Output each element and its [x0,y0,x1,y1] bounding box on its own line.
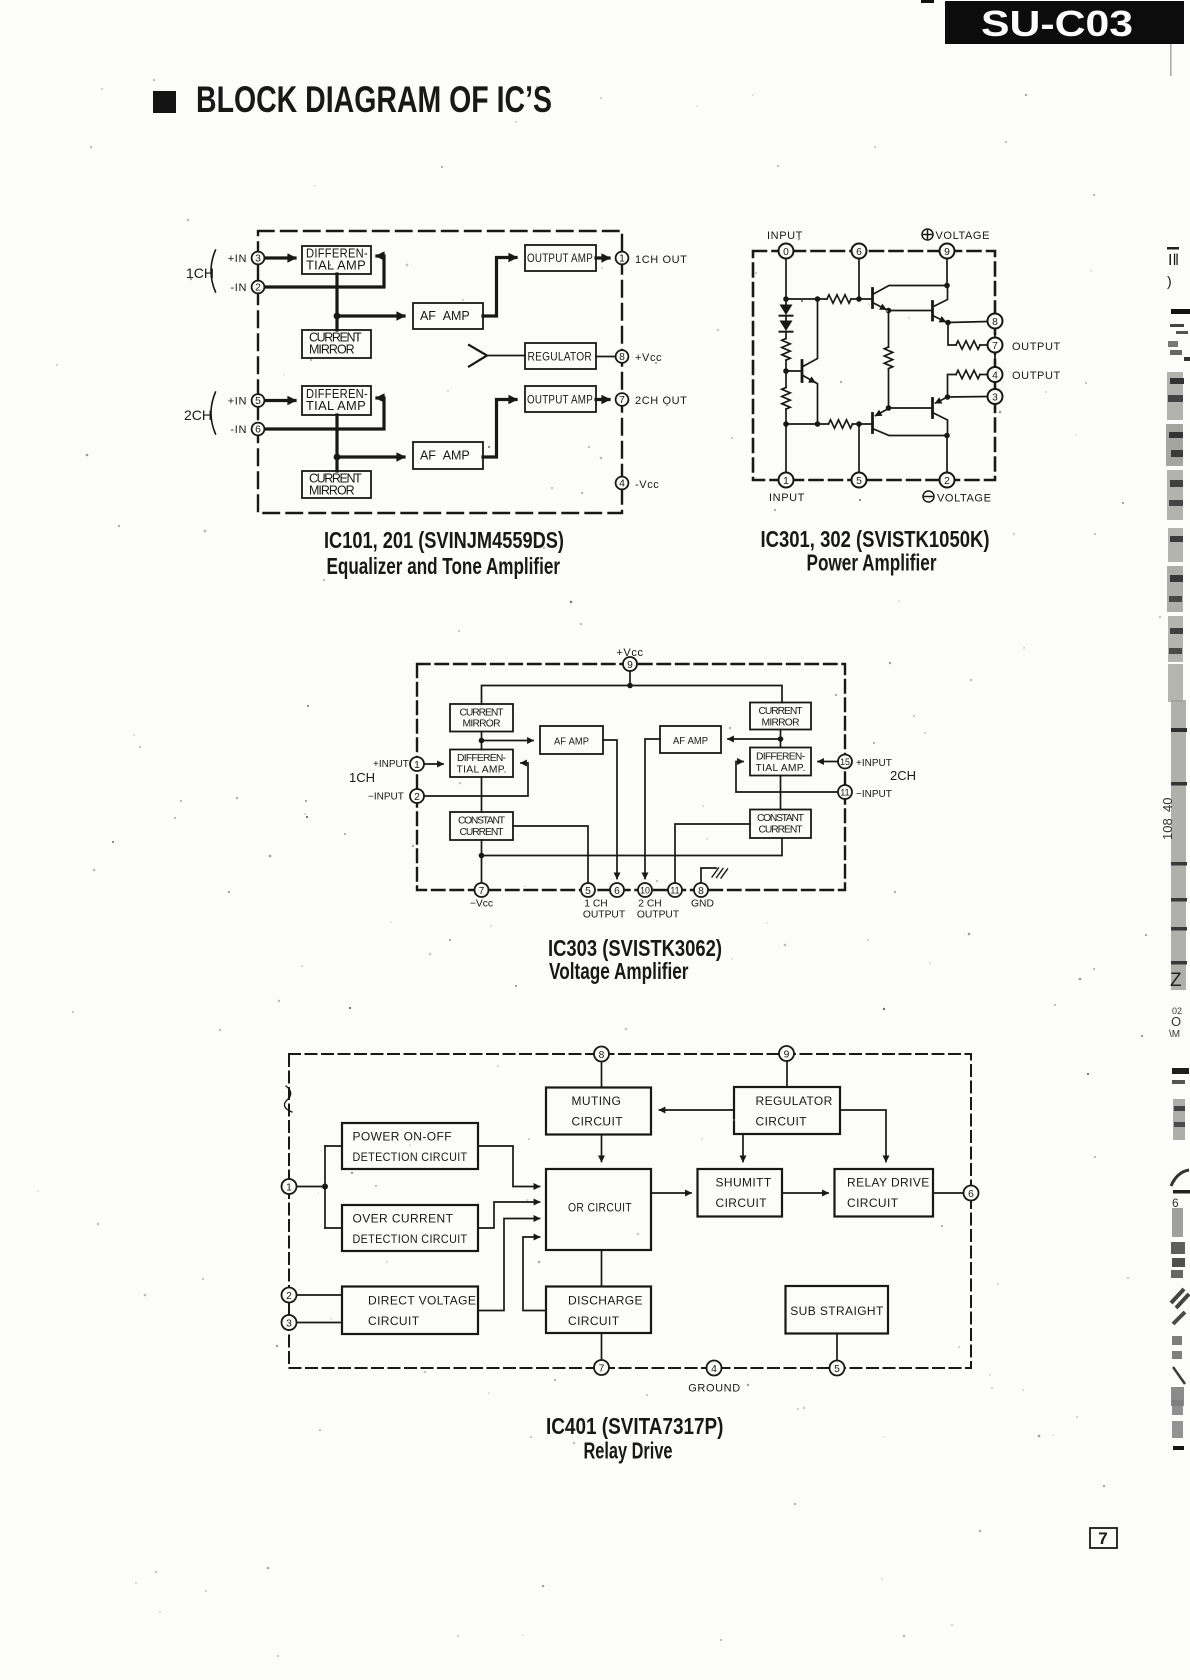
svg-text:40: 40 [1160,798,1175,812]
middle column lower wire [888,369,890,408]
wire regulator to pin 8 [596,356,616,358]
svg-text:2: 2 [944,476,950,487]
brace 2CH [211,392,216,434]
svg-text:1: 1 [414,760,420,771]
svg-text:REGULATOR: REGULATOR [756,1094,833,1108]
Q2 collector [933,286,948,308]
pin 8 [694,883,708,897]
pin1 node dot [322,1184,328,1190]
current mirror 2 box [302,471,371,498]
diode D2 [780,316,793,332]
svg-text:CIRCUIT: CIRCUIT [568,1314,620,1328]
pin 7 [594,1360,609,1375]
wire CM-L to DIFF-L [481,732,483,750]
pin 5 [830,1361,845,1376]
Q1 collector [873,286,948,295]
wire AF amp 1 to output amp 1 [483,258,516,317]
differential amp R box [750,748,811,776]
brace 1CH [211,250,216,292]
resistor R-mid (vertical) [884,347,892,369]
pin 2 [282,1288,297,1303]
current mirror 1 box [302,330,371,358]
power on-off detection box [342,1123,478,1169]
svg-text:OUTPUT: OUTPUT [583,910,626,921]
pin 5 [252,394,265,407]
svg-text:2: 2 [414,792,420,803]
resistor R2 (vertical) [782,388,790,410]
svg-text:7: 7 [599,1364,605,1375]
label 1 CH OUTPUT [583,899,626,921]
wire node to pin 3 [948,396,989,399]
middle column upper wire [888,311,890,348]
relay drive circuit box [835,1169,934,1217]
differential amp 2 box [302,386,371,415]
pin 9 [940,244,955,259]
svg-text:2CH: 2CH [890,768,916,783]
node dot [815,421,821,427]
Q2 emitter (arrow) [933,316,946,322]
Q3 collector [873,429,948,436]
wire pin5 stem [858,424,860,473]
svg-text:8: 8 [698,886,704,897]
svg-text:+Vcc: +Vcc [616,647,643,659]
resistor R1 (vertical) [782,339,790,361]
direct voltage circuit box [342,1287,478,1335]
transistor Q5 base bar [801,361,804,382]
wire direct voltage to OR [478,1219,540,1311]
node B dot [783,368,789,374]
wire AF-L to pin6 (arrow) [603,740,617,879]
svg-text:−INPUT: −INPUT [368,792,404,803]
wire Q1 emitter to Q2 base [889,310,932,312]
svg-text:5: 5 [255,396,261,407]
right border solid segment 8-7 [994,329,996,337]
node dot [783,296,789,302]
wire node2 to AF amp 2 [337,455,404,458]
wire to Q4 base [889,407,932,409]
arrow muting to OR [601,1135,603,1162]
page number box [1090,1528,1117,1548]
border squiggle artifact [284,1086,292,1112]
svg-text:CURRENT: CURRENT [759,825,804,836]
shumitt circuit box [698,1169,783,1217]
wire pin2 [297,1294,343,1296]
arrow shumitt to relay [782,1192,828,1194]
pin 5 [581,883,595,897]
node dot [856,421,862,427]
wire pin9 stem [786,1061,788,1087]
svg-text:6: 6 [856,247,862,258]
svg-text:O: O [1171,1014,1181,1029]
pin 6 [252,423,265,436]
branch to power box [325,1145,342,1147]
svg-text:VOLTAGE: VOLTAGE [937,493,992,505]
model number plate [945,1,1184,44]
svg-text:6: 6 [614,886,620,897]
svg-text:4: 4 [992,371,998,382]
AF amp 2 box [413,442,483,469]
svg-text:VOLTAGE: VOLTAGE [936,230,991,242]
wire R1 to node B [785,360,787,371]
svg-text:TIAL AMP: TIAL AMP [306,399,366,413]
svg-text:Power Amplifier: Power Amplifier [807,550,937,576]
pin 4 [988,367,1003,382]
svg-text:108: 108 [1160,818,1175,840]
svg-text:CIRCUIT: CIRCUIT [368,1314,420,1328]
wire down to pin7 resistor [948,323,956,346]
svg-text:CONSTANT: CONSTANT [757,813,805,824]
wire pin9 stem [946,259,948,286]
svg-text:MIRROR: MIRROR [309,343,355,357]
AF amp R box [660,726,721,753]
svg-text:0: 0 [783,247,789,258]
wire discharge hook to OR [523,1237,546,1311]
wire to regulator [487,355,525,357]
top rail right [851,298,873,300]
svg-text:RELAY DRIVE: RELAY DRIVE [847,1176,930,1190]
branch to over current box [325,1227,342,1229]
svg-text:\M: \M [1169,1029,1180,1040]
svg-text:CIRCUIT: CIRCUIT [716,1196,768,1210]
svg-text:CIRCUIT: CIRCUIT [572,1115,624,1129]
pin8 ground wire [701,868,716,884]
svg-text:GND: GND [691,899,714,910]
svg-text:9: 9 [627,660,633,671]
svg-text:1 CH: 1 CH [584,899,607,910]
svg-text:11: 11 [840,787,849,797]
svg-text:4: 4 [619,479,625,490]
transistor Q3 base bar [871,414,874,433]
svg-text:SUB STRAIGHT: SUB STRAIGHT [790,1304,884,1318]
svg-text:2CH OUT: 2CH OUT [635,395,687,407]
svg-text:DIRECT VOLTAGE: DIRECT VOLTAGE [368,1294,476,1308]
output amp 1 box [525,245,596,271]
over current detection box [342,1205,478,1251]
wire pin2 stem [946,436,948,473]
arrow CM-R node to AF-R [728,738,781,740]
svg-text:SHUMITT: SHUMITT [716,1176,772,1190]
svg-text:-IN: -IN [231,424,247,436]
svg-text:8: 8 [992,317,998,328]
svg-text:DISCHARGE: DISCHARGE [568,1294,643,1308]
wire sub straight to pin5 [836,1334,838,1361]
pin 4 [707,1361,722,1376]
wire CC-R to pin11 bottom [675,824,750,884]
pin 1 [282,1179,297,1194]
Q4 collector [933,413,948,436]
pin1 branch vertical [324,1146,326,1228]
svg-text:AF AMP: AF AMP [420,309,470,323]
bottom long rail [482,838,783,856]
node dot pin3 [945,394,951,400]
node junction 1 [334,313,341,320]
svg-text:POWER ON-OFF: POWER ON-OFF [353,1130,452,1144]
wire power to OR [478,1146,540,1187]
svg-text:1: 1 [619,254,625,265]
pin 10 [638,883,652,897]
arrow CM-L node to AF-L [482,740,534,742]
pin 11 right [838,785,852,799]
wire pin3 [297,1322,343,1324]
node dot [783,421,789,427]
svg-text:-IN: -IN [231,282,247,294]
wire node2 to current mirror 2 [335,457,338,471]
svg-text:CIRCUIT: CIRCUIT [756,1115,808,1129]
pin 5 [852,473,867,488]
current mirror L box [450,704,513,732]
pin15 arrow to DIFF-R [818,761,839,763]
regulator circuit box [734,1087,840,1134]
label 2 CH OUTPUT [637,899,680,921]
SECTION:IC101 [184,231,687,579]
wire AF amp 2 to output amp 2 [483,400,516,458]
svg-text:1CH OUT: 1CH OUT [635,254,687,266]
sub straight box [786,1286,889,1334]
svg-text:2CH: 2CH [184,407,212,423]
SECTION:IC303 [349,647,916,984]
label -VOLTAGE [923,491,992,505]
svg-text:Z: Z [1170,970,1182,991]
wire OR to discharge [601,1250,603,1287]
IC303 package outline (dashed) [417,664,845,890]
svg-text:4: 4 [711,1364,717,1375]
svg-text:IC101, 201 (SVINJM4559DS): IC101, 201 (SVINJM4559DS) [324,527,564,553]
svg-text:6: 6 [968,1189,974,1200]
svg-text:CURRENT: CURRENT [460,708,505,719]
title bullet square [153,91,176,113]
wire diff1 to node [335,274,338,316]
wire pin8 stem [601,1062,603,1088]
resistor R-top [827,295,851,303]
svg-text:7: 7 [479,886,485,897]
svg-text:INPUT: INPUT [767,230,803,242]
svg-text:IC301, 302 (SVISTK1050K): IC301, 302 (SVISTK1050K) [761,526,990,552]
wire pin6 stem [858,259,860,300]
wire resistor to pin 7 [980,344,988,346]
label +VOLTAGE [922,229,990,242]
svg-text:5: 5 [856,476,862,487]
constant current L box [450,812,513,840]
svg-text:7: 7 [992,341,998,352]
regulator box [525,343,596,369]
arrow regulator to muting [660,1109,735,1111]
SECTION:IC301 [753,229,1061,576]
wire diff2 to node 2 [335,415,338,457]
svg-text:IC401 (SVITA7317P): IC401 (SVITA7317P) [546,1413,724,1439]
wire node B to R2 [785,371,787,388]
svg-text:AF AMP: AF AMP [420,449,470,463]
bottom rail right [853,423,873,425]
Vcc rail [482,686,783,705]
pin 7 [988,338,1003,353]
IC301 package outline (dashed) [753,251,995,480]
svg-text:MUTING: MUTING [572,1094,622,1108]
wire pin5 to differential amp 2 [265,399,296,402]
svg-text:8: 8 [599,1050,605,1061]
pin2 feedback loop to DIFF-L [424,763,529,796]
wire pin2 feedback to differential amp 1 [265,256,385,287]
svg-text:GROUND: GROUND [688,1383,741,1395]
pin 6 [964,1186,979,1201]
svg-text:OR CIRCUIT: OR CIRCUIT [568,1201,632,1215]
svg-text:MIRROR: MIRROR [463,719,501,730]
pin11 feedback loop to DIFF-R [736,762,839,793]
wire pin 4 to resistor [980,374,988,376]
discharge circuit box [546,1287,651,1334]
resistor R4 [956,370,980,378]
svg-text:BLOCK DIAGRAM OF IC’S: BLOCK DIAGRAM OF IC’S [196,79,552,120]
node dot [479,738,485,744]
resistor R7 [956,341,980,349]
wire node to AF amp 1 [337,314,404,317]
Q5 emitter (arrow) [802,375,815,382]
AF amp 1 box [413,303,483,329]
node dot collector rail [944,433,950,439]
svg-text:−INPUT: −INPUT [856,789,892,800]
node dot Q2 emitter [945,320,951,326]
svg-text:OUTPUT: OUTPUT [637,910,680,921]
wire DIFF-L to CC-L [481,777,483,812]
svg-text:2: 2 [255,283,261,294]
pin 2 [252,281,265,294]
wire pin3 to differential amp 1 [265,256,296,259]
pin 8 [988,314,1003,329]
svg-text:7: 7 [619,395,625,406]
svg-text:CURRENT: CURRENT [460,827,505,838]
right border solid segment 4-3 [994,383,996,389]
svg-text:TIAL AMP.: TIAL AMP. [457,765,507,776]
pin 3 [988,389,1003,404]
OR circuit box [546,1169,651,1250]
svg-text:1CH: 1CH [349,770,375,785]
svg-text:TIAL AMP.: TIAL AMP. [756,763,806,774]
svg-text:5: 5 [834,1364,840,1375]
svg-text:6: 6 [1172,1196,1179,1210]
transistor Q1 base bar [871,289,874,308]
SECTION:IC401 [282,1046,979,1464]
wire node B to Q5 base [786,370,801,372]
svg-text:OUTPUT AMP: OUTPUT AMP [527,251,593,265]
wire CC-L to pin5 [513,826,588,884]
differential amp 1 box [302,246,371,274]
node dot mid-bottom [886,405,892,411]
svg-text:INPUT: INPUT [769,492,805,504]
IC401 package outline (dashed) [289,1054,971,1368]
wire diode to R1 [785,332,787,339]
svg-text:1: 1 [783,476,789,487]
Q3 emitter (arrow toward bar) [876,409,889,416]
wire AF-R to pin10 (arrow) [645,739,660,879]
Q5 emitter wire down [815,382,818,424]
svg-text:): ) [1167,273,1172,289]
pin 8 [594,1047,609,1062]
svg-text:3: 3 [255,254,261,265]
svg-text:I‖: I‖ [1168,252,1179,269]
SECTION:EDGE [1160,44,1190,1450]
wire Q2 emitter to pin 8 [948,322,988,323]
svg-text:2 CH: 2 CH [638,899,661,910]
pin 3 [282,1315,297,1330]
svg-text:10: 10 [640,885,650,895]
svg-text:6: 6 [255,425,261,436]
output amp 2 box [525,386,596,412]
wire over current to OR [478,1202,540,1228]
svg-text:-Vcc: -Vcc [635,479,659,491]
svg-text:15: 15 [840,757,850,767]
svg-text:CONSTANT: CONSTANT [458,816,506,827]
svg-text:DIFFEREN-: DIFFEREN- [756,752,805,763]
wire regulator to shumitt [742,1134,744,1162]
svg-text:3: 3 [286,1319,292,1330]
pin 6 [852,244,867,259]
svg-text:+INPUT: +INPUT [373,759,409,770]
wire discharge to pin7 [601,1333,603,1360]
node dot [856,296,862,302]
svg-text:Voltage Amplifier: Voltage Amplifier [549,958,689,984]
wire relay to pin6 [933,1192,964,1194]
svg-text:AF AMP: AF AMP [554,737,589,748]
pin 9 [623,657,637,671]
svg-text:+IN: +IN [228,396,247,408]
svg-text:8: 8 [619,352,625,363]
pin 0 [779,244,794,259]
Q5 collector [802,299,818,367]
pin 11 bottom [668,883,682,897]
transistor Q2 base bar [931,302,934,321]
node dot [815,296,821,302]
IC101 package outline (dashed) [258,231,622,513]
svg-text:9: 9 [944,247,950,258]
constant current R box [750,810,811,839]
svg-text:5: 5 [585,886,591,897]
node dot Vcc [627,683,633,689]
svg-text:Relay Drive: Relay Drive [584,1438,673,1464]
node dot at pin9 line [944,283,950,289]
pin 7 [616,393,629,406]
svg-text:11: 11 [670,885,679,895]
node dot bottom rail L [479,853,485,859]
pin 9 [779,1046,794,1061]
bottom rail left [786,423,829,425]
wire R2 to bottom rail [785,409,787,424]
pin 15 [838,755,852,769]
svg-text:DIFFEREN-: DIFFEREN- [457,753,506,764]
Q1 emitter (arrow) [873,303,887,310]
wire output amp 1 to pin 1 [596,256,609,259]
svg-text:2: 2 [286,1291,292,1302]
differential amp L box [450,750,513,778]
svg-text:MIRROR: MIRROR [309,484,355,498]
svg-text:CURRENT: CURRENT [759,706,804,717]
right border solid segment 7-4 [994,353,996,367]
wire pin9 stem [629,671,631,686]
svg-text:+IN: +IN [228,253,247,265]
wire output amp 2 to pin 7 [596,398,609,401]
pin 1 [616,252,629,265]
pin1 arrow to DIFF-L [424,763,444,765]
svg-text:−Vcc: −Vcc [470,899,493,910]
svg-text:1: 1 [286,1183,292,1194]
pin 2 [410,789,424,803]
wire pin0 stem [785,259,787,300]
pin 2 [940,473,955,488]
node dot [778,736,784,742]
svg-text:+Vcc: +Vcc [635,352,662,364]
svg-text:OUTPUT: OUTPUT [1012,370,1061,382]
svg-text:OUTPUT: OUTPUT [1012,341,1061,353]
transistor Q4 base bar [931,399,934,418]
wire regulator to relay drive [840,1110,886,1162]
